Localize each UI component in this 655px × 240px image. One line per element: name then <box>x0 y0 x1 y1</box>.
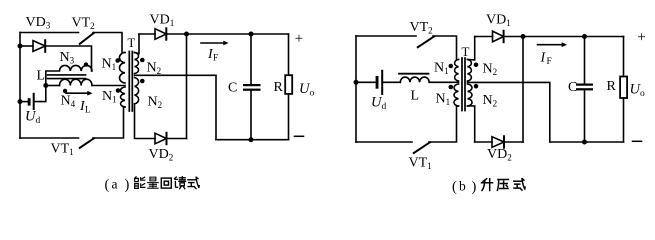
svg-text:o: o <box>640 89 645 99</box>
wire VT2 to transformer top (a) <box>93 33 125 53</box>
label R (a) <box>274 80 284 95</box>
svg-text:VD1: VD1 <box>150 13 175 29</box>
wire VD2 cathode vertical (a) <box>186 34 188 139</box>
label VT2 (a) <box>72 16 95 32</box>
arrow IF (a) <box>201 41 229 46</box>
wire top left to VT2 (a) <box>20 32 79 34</box>
transformer winding N2 upper (a) <box>135 53 139 74</box>
label IL <box>79 99 91 115</box>
node dot C top / top bus <box>249 32 254 37</box>
label minus terminal (a) <box>295 135 304 137</box>
wire battery branch from junction down <box>35 86 46 102</box>
label VD2 (a) <box>149 147 174 163</box>
wire transformer N2 bottom lead (a) <box>135 104 156 139</box>
label VD1 (b) <box>486 13 511 29</box>
label N1 upper (a) <box>102 57 117 73</box>
wire VT1 to transformer bottom lead (b) <box>429 106 459 142</box>
transformer winding N2 lower (a) <box>135 78 139 104</box>
svg-text:R: R <box>607 79 617 94</box>
label N2 lower (b) <box>483 93 498 109</box>
caption (a) hanzi 式 <box>188 177 199 188</box>
label VT1 (b) <box>409 156 432 172</box>
wire transformer N2 bottom lead (b) <box>468 106 475 142</box>
svg-text:N2: N2 <box>147 61 162 77</box>
svg-text:T: T <box>128 36 136 50</box>
svg-text:VT2: VT2 <box>410 20 433 36</box>
svg-text:b: b <box>459 179 466 194</box>
node junction dot N4/N3/battery <box>43 83 48 88</box>
label N2 lower (a) <box>148 95 163 111</box>
svg-text:+: + <box>637 30 645 46</box>
svg-text:C: C <box>568 80 577 95</box>
diode VD1 (a) <box>155 28 166 39</box>
polarity dot N1 lower (b) <box>449 85 454 90</box>
wire VD3 cathode to N3 right end (a) <box>45 46 91 71</box>
svg-text:VT2: VT2 <box>72 16 95 32</box>
caption (b) latin part <box>452 179 477 196</box>
polarity dot N2 lower (b) <box>474 84 479 89</box>
node dot VD2 vertical / top bus (b) <box>521 34 526 39</box>
transformer winding N2 lower (b) <box>468 84 473 106</box>
transformer winding N2 upper (b) <box>468 60 472 82</box>
caption (a) hanzi 馈 <box>175 177 186 189</box>
polarity dot N3 (right end) <box>84 62 88 66</box>
wire left vertical to battery (b) <box>356 81 376 83</box>
capacitor C (a) leads <box>250 34 252 140</box>
svg-text:T: T <box>462 44 470 59</box>
label minus terminal (b) <box>633 140 642 142</box>
wire inductor to transformer tap (b) <box>429 81 458 83</box>
svg-text:VD1: VD1 <box>486 13 511 29</box>
polarity dot N2 upper (b) <box>474 63 479 68</box>
label VD2 (b) <box>487 147 512 163</box>
wire VD2 to vertical (a) <box>167 138 187 140</box>
label IF (a) <box>207 47 218 63</box>
caption (b) hanzi 升 <box>482 179 493 191</box>
transformer T core (a) <box>129 52 132 112</box>
label VT2 (b) <box>410 20 433 36</box>
inductor L (b) winding <box>400 77 429 82</box>
arrow IF (b) <box>538 42 568 47</box>
wire N2 top to VD1 <box>139 33 155 35</box>
transformer winding N1 lower (b) <box>454 84 459 106</box>
wire VT2 to transformer top lead (b) <box>433 36 459 60</box>
inductor L (b) core line <box>399 73 429 75</box>
transistor VT1 switch blade (a) <box>80 138 94 147</box>
label plus terminal (b) <box>637 30 645 46</box>
wire VD2 cathode vertical (b) <box>522 37 524 143</box>
wire left vertical (a) <box>19 33 21 139</box>
label C (a) <box>228 81 237 96</box>
caption (a) hanzi 能 <box>135 177 145 189</box>
capacitor C (b) leads <box>584 37 586 143</box>
label N4 <box>61 94 76 110</box>
svg-text:C: C <box>228 81 237 96</box>
wire VT1 to transformer bottom lead (a) <box>93 107 125 138</box>
svg-text:N4: N4 <box>61 94 76 110</box>
capacitor C (a) plates <box>243 84 261 91</box>
node junction dot battery / left vertical <box>18 99 23 104</box>
polarity dot N1 upper (b) <box>449 64 454 69</box>
wire VD2 to vertical (b) <box>504 141 523 143</box>
label N1 lower (a) <box>102 89 117 105</box>
diode VD3 <box>33 40 45 52</box>
wire N2 center tap to output minus (a) <box>135 75 217 139</box>
diode VD1 (b) <box>493 31 504 42</box>
polarity dot N2 upper <box>140 58 145 63</box>
svg-text:): ) <box>125 177 130 193</box>
caption (a) hanzi 量 <box>148 177 159 188</box>
label L (a) <box>37 69 46 84</box>
transistor VT1 switch blade (b) <box>414 142 430 153</box>
wire N4 left lead to junction <box>46 85 60 87</box>
wire VD1 to top bus (b) <box>504 36 624 38</box>
svg-text:VT1: VT1 <box>409 156 432 172</box>
svg-text:N3: N3 <box>60 50 75 66</box>
label VD3 <box>26 15 51 31</box>
node dot VD2 vertical / top bus <box>184 32 189 37</box>
label L (b) <box>411 89 420 104</box>
svg-text:N1: N1 <box>102 57 117 73</box>
resistor R (a) body <box>285 75 292 94</box>
resistor R (b) body <box>620 77 627 99</box>
svg-text:N2: N2 <box>483 62 498 78</box>
wire transformer N2 top lead (b) <box>468 37 475 60</box>
inductor winding N3 (coupled inductor L, top winding) <box>46 65 92 85</box>
label IF (b) <box>540 51 552 68</box>
svg-text:VD3: VD3 <box>26 15 51 31</box>
caption (a) hanzi 回 <box>161 178 171 188</box>
diode VD2 (b) <box>492 136 504 147</box>
svg-text:+: + <box>295 31 303 47</box>
svg-text:o: o <box>310 89 315 99</box>
wire left vertical (b) <box>355 36 357 142</box>
svg-text:(: ( <box>105 177 110 193</box>
svg-text:N1: N1 <box>436 92 451 108</box>
arrow IL <box>66 91 93 96</box>
wire bottom bus (b) <box>550 141 624 143</box>
polarity dot N4 (left end) <box>63 89 67 93</box>
svg-text:N1: N1 <box>434 61 449 77</box>
svg-text:L: L <box>411 89 420 104</box>
resistor R (a) leads <box>288 34 290 140</box>
label VT1 (a) <box>51 142 74 158</box>
label N3 <box>60 50 75 66</box>
label Uo (b) <box>630 82 646 100</box>
svg-text:VD2: VD2 <box>487 147 512 163</box>
svg-text:): ) <box>472 179 477 195</box>
caption (b) hanzi 压 <box>497 180 508 191</box>
node junction dot battery / left vertical (b) <box>354 80 359 85</box>
caption (b) hanzi 式 <box>514 179 525 190</box>
svg-text:F: F <box>213 53 218 63</box>
inductor winding N4 (coupled inductor L, bottom winding) <box>60 79 93 85</box>
transformer winding N1 upper (b) <box>455 60 459 82</box>
wire top left to VT2 (b) <box>356 35 416 37</box>
transformer T core (b) <box>462 58 465 111</box>
wire bottom left to VT1 (b) <box>356 141 412 143</box>
svg-text:F: F <box>547 57 552 67</box>
svg-text:L: L <box>37 69 46 84</box>
battery Ud (a) : long plate <box>33 93 35 110</box>
label C (b) <box>568 80 577 95</box>
svg-text:VD2: VD2 <box>149 147 174 163</box>
svg-text:N2: N2 <box>483 93 498 109</box>
transformer winding N1 lower (a) <box>120 87 125 107</box>
wire N2 bottom to VD2 (b) <box>475 141 492 143</box>
wire top bus (a) <box>166 33 288 35</box>
polarity dot N1 upper <box>115 58 120 63</box>
transistor VT2 switch blade (b) <box>418 37 434 48</box>
wire VD3 anode (a) <box>20 45 33 47</box>
battery Ud (b) : short plate <box>376 76 379 89</box>
label R (b) <box>607 79 617 94</box>
svg-text:N2: N2 <box>148 95 163 111</box>
wire bottom bus (a) <box>216 139 289 141</box>
wire N4 right lead to transformer center tap (a) <box>92 85 125 87</box>
node dot C top / top bus (b) <box>582 34 587 39</box>
capacitor C (b) plates <box>576 84 593 91</box>
label N2 upper (a) <box>147 61 162 77</box>
wire battery to left vertical <box>20 101 28 103</box>
label plus terminal (a) <box>295 31 303 47</box>
label Ud (b) <box>371 95 387 113</box>
svg-text:d: d <box>382 102 387 112</box>
node junction dot at left vertical / VD3 branch <box>18 44 23 49</box>
inductor L core lines <box>48 75 86 79</box>
resistor R (b) leads <box>623 37 625 143</box>
svg-text:d: d <box>36 116 41 126</box>
wire N2 center tap to output minus (b) <box>468 82 550 142</box>
svg-text:L: L <box>85 105 91 115</box>
label VD1 (a) <box>150 13 175 29</box>
wire N2 top to VD1 (b) <box>475 36 493 38</box>
node dot C bottom / bottom bus <box>249 137 254 142</box>
wire battery to inductor L (b) <box>383 81 400 83</box>
svg-text:a: a <box>112 177 118 192</box>
label N1 upper (b) <box>434 61 449 77</box>
node dot C bottom / bottom bus (b) <box>582 140 587 145</box>
svg-text:VT1: VT1 <box>51 142 74 158</box>
svg-text:R: R <box>274 80 284 95</box>
polarity dot N1 lower <box>116 88 121 93</box>
svg-text:(: ( <box>452 179 457 195</box>
transformer winding N1 upper (a) <box>119 53 125 84</box>
wire transformer N2 top lead (a) <box>135 34 140 54</box>
label Uo (a) <box>299 81 315 99</box>
label T (a) <box>128 36 136 50</box>
label N1 lower (b) <box>436 92 451 108</box>
label T (b) <box>462 44 470 59</box>
svg-text:N1: N1 <box>102 89 117 105</box>
caption (a) latin part <box>105 177 130 194</box>
svg-text:I: I <box>540 51 547 66</box>
wire bottom left to VT1 (a) <box>20 137 79 139</box>
label Ud (a) <box>25 109 41 127</box>
battery Ud (a) : short plate <box>28 98 31 105</box>
polarity dot N2 lower <box>140 79 145 84</box>
label N2 upper (b) <box>483 62 498 78</box>
transistor VT2 switch blade (a) <box>80 33 94 44</box>
diode VD2 (a) <box>155 133 167 144</box>
battery Ud (b) : long plate <box>381 70 383 95</box>
